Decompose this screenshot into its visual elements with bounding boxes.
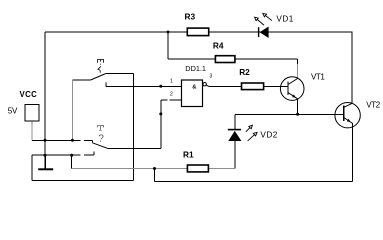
wire R4 branch vertical <box>167 32 169 59</box>
svg-text:R3: R3 <box>185 12 196 22</box>
node dots <box>44 31 300 171</box>
transistor VT2 <box>335 103 360 128</box>
wire row2 to R1 row branch <box>71 155 73 168</box>
resistor R4 <box>215 56 235 63</box>
switch SA1 lever <box>91 74 106 81</box>
wire VT1 collector vertical (gray) <box>297 59 299 64</box>
node pin1 row <box>159 85 162 88</box>
node R1 row / VT2 emitter <box>153 167 156 170</box>
diode VD2 <box>228 129 242 141</box>
wire ground stub <box>44 155 46 168</box>
svg-text:R1: R1 <box>183 150 194 160</box>
wire right rail (VT2 collector feed) <box>351 32 353 104</box>
wire SA1 line B <box>106 72 134 74</box>
op-amp gate DD1.1 box <box>182 80 203 107</box>
wire bottom-left rail <box>32 179 134 181</box>
svg-text:VT2: VT2 <box>366 101 380 110</box>
wire SA2 common row <box>107 147 160 149</box>
wire gate output diagonal <box>203 83 206 86</box>
svg-text:VD2: VD2 <box>260 131 277 140</box>
wire left drop <box>31 155 33 180</box>
wire SA1 line C / gate pin1 row <box>106 83 182 87</box>
svg-text:VCC: VCC <box>20 90 38 99</box>
svg-text:2: 2 <box>170 92 173 98</box>
wire R2 to VT1 base <box>264 85 288 87</box>
node top rail / R4 <box>167 31 170 34</box>
wire row2 to switch SA2 bottom contact <box>32 151 94 155</box>
wire mid vertical <box>133 73 135 180</box>
wire VD2 stem bottom <box>234 141 236 169</box>
resistor R2 <box>242 83 264 90</box>
VCC source box <box>25 105 39 122</box>
svg-text:R4: R4 <box>213 40 224 50</box>
wire row1 to switch SA2 top contact <box>32 139 93 141</box>
wire gate pin2 row <box>161 99 182 101</box>
switch SA2 label glyphs <box>97 126 104 142</box>
LED arrows VD1 <box>255 13 272 25</box>
switch SA2 lever <box>91 140 93 142</box>
node row2 ground <box>44 154 47 157</box>
svg-text:DD1.1: DD1.1 <box>185 64 206 73</box>
wire vertical pin2 to switch SA2 common <box>160 100 162 148</box>
svg-text:R2: R2 <box>239 67 250 77</box>
node row1 sw vert <box>71 139 74 142</box>
diode VD1 <box>258 27 269 39</box>
wire gate output row to R2 <box>209 85 242 87</box>
wire VCC stub (gray) <box>31 121 33 140</box>
node row2 R1 branch <box>70 154 73 157</box>
wire R4 row <box>168 58 298 60</box>
node row1 left rail <box>44 139 47 142</box>
LED arrows VD2 <box>246 125 257 141</box>
node mid dot <box>159 112 162 115</box>
wire vertical from SA1 to row1 (gray) <box>71 80 73 140</box>
resistor R3 <box>187 28 208 35</box>
svg-text:VT1: VT1 <box>311 73 325 82</box>
wire left rail <box>44 32 46 155</box>
svg-text:VD1: VD1 <box>276 15 293 24</box>
switch SA1 contact line <box>72 79 90 81</box>
wire VD2 stem top <box>234 114 236 129</box>
transistor VT1 <box>280 77 304 115</box>
switch SA1 label glyphs <box>97 60 104 73</box>
svg-text:3: 3 <box>210 74 213 80</box>
wire bottom-right rail <box>155 124 353 182</box>
resistor R1 <box>187 165 208 172</box>
svg-text:1: 1 <box>170 78 173 84</box>
svg-text:5V: 5V <box>8 107 18 116</box>
wire top rail <box>45 31 352 33</box>
wire R1 row (gray) <box>72 168 235 170</box>
ground <box>38 168 53 170</box>
wire emitter row <box>235 113 343 115</box>
node VT1 emitter <box>296 113 299 116</box>
svg-text:&: & <box>192 84 196 90</box>
